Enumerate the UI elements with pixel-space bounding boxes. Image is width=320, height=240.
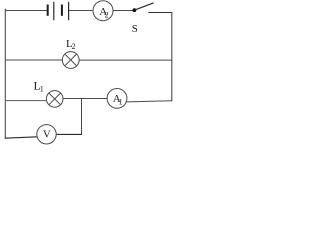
svg-text:2: 2 [72,42,76,51]
lamp L1 [34,79,64,108]
ammeter A1 [107,89,127,109]
svg-text:1: 1 [40,85,44,94]
switch S [132,3,173,35]
right rail wire [171,12,173,101]
switch blade [135,3,154,10]
battery long plate 2 [68,2,70,20]
svg-text:S: S [132,23,138,35]
wire: battery to ammeter A2 [69,10,94,12]
svg-text:V: V [43,129,51,141]
battery B1 (two cells) [48,2,69,20]
wire: top wire left rail to battery [6,10,48,12]
wire: voltmeter to tap horizontal [56,133,82,135]
wire: lamp L1 to ammeter A1 [63,98,108,100]
battery short plate 2 [61,5,63,16]
wire: voltmeter tap vertical [81,99,83,135]
switch pivot dot [133,8,137,12]
wire: row2 left rail to lamp L2 [5,59,63,61]
battery long plate 1 [53,2,55,20]
lamp L2 [62,38,79,69]
svg-text:1: 1 [119,97,123,106]
wire: row3 left rail to lamp L1 [5,100,47,102]
svg-text:2: 2 [105,11,109,20]
switch right terminal wire [148,12,172,14]
wire: ammeter A1 to right rail [126,101,172,102]
ammeter A2 [93,1,113,21]
voltmeter V [37,125,56,144]
left rail wire [4,9,6,139]
wire: lamp L2 to right rail [79,59,173,61]
battery short plate 1 [47,5,49,16]
wire: left rail to voltmeter [5,137,38,138]
wire: ammeter A2 to switch dot [113,10,135,12]
